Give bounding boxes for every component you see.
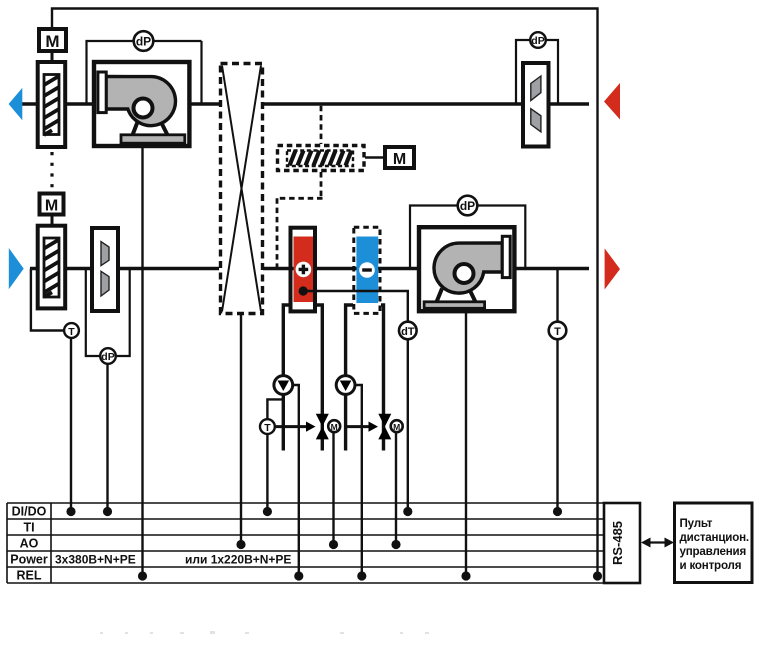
svg-text:или 1х220В+N+РЕ: или 1х220В+N+РЕ xyxy=(185,553,291,567)
svg-text:dP: dP xyxy=(101,351,114,363)
heater box HE1 outer xyxy=(291,228,316,312)
svg-text:REL: REL xyxy=(17,569,42,583)
sensor dP supply fan xyxy=(458,196,478,216)
RS-485 interface box xyxy=(604,503,640,583)
wire pump heater to REL xyxy=(293,385,299,576)
wire arrow into valve 1 xyxy=(275,425,307,428)
wire pump cooler to REL xyxy=(355,385,362,576)
wire supply filter dP bracket xyxy=(86,269,130,357)
junction dot heater return tap xyxy=(299,286,308,295)
svg-text:Power: Power xyxy=(10,553,48,567)
wire frost T bracket to pipe xyxy=(267,399,283,419)
junction dots AO row xyxy=(236,540,400,549)
wire outdoor T sensor tap xyxy=(31,269,64,331)
red arrow supply air (bottom right) xyxy=(605,248,620,289)
wire heater tap to dT sensor xyxy=(303,291,408,322)
cooler box outer dashed xyxy=(354,227,380,313)
supply fan base plate xyxy=(424,302,485,309)
heat exchanger X diagonals xyxy=(222,66,261,312)
wire RS-485 to remote panel double arrow xyxy=(647,541,668,543)
wire supply fan power to REL xyxy=(465,313,467,576)
return filter wedge upper xyxy=(531,76,541,101)
svg-text:RS-485: RS-485 xyxy=(610,521,625,565)
wire exhaust fan dP bracket xyxy=(87,41,202,104)
wire valve 1 M to AO xyxy=(332,432,334,544)
sensor dP return filter xyxy=(530,32,546,48)
blue arrow fresh air in (bottom left) xyxy=(9,248,24,289)
valve V1 three-way xyxy=(316,414,329,427)
wire exhaust fan power to REL xyxy=(141,148,143,576)
svg-text:TI: TI xyxy=(23,521,34,535)
actuator M valve 1 xyxy=(328,420,340,432)
exhaust fan eye xyxy=(134,99,153,118)
sensor dP exhaust fan xyxy=(134,31,154,51)
intake damper blade hatched xyxy=(44,238,59,297)
cooler minus symbol xyxy=(359,262,375,278)
bus row labels xyxy=(10,505,48,583)
svg-text:T: T xyxy=(554,326,561,338)
wire supply T tap xyxy=(556,269,558,322)
svg-text:T: T xyxy=(264,422,271,434)
wire dP supply filter to DI/DO xyxy=(106,364,108,512)
exhaust damper box xyxy=(38,62,65,147)
wire dT to DI/DO xyxy=(407,339,409,511)
svg-text:и контроля: и контроля xyxy=(680,559,742,572)
svg-text:AO: AO xyxy=(20,537,39,551)
wire supply duct segments y=268.5 xyxy=(30,267,589,270)
pipe heater return right xyxy=(316,305,322,451)
supply fan legs xyxy=(437,289,476,303)
remote control panel box xyxy=(675,503,753,583)
exhaust fan legs xyxy=(133,122,168,135)
wire valve 2 M to AO xyxy=(395,432,397,544)
svg-text:дистанцион.: дистанцион. xyxy=(680,531,749,544)
motor M1 box (exhaust damper actuator) xyxy=(39,29,66,51)
exhaust fan box xyxy=(94,62,189,146)
dotted mechanical link xyxy=(50,152,53,188)
pump cooler circle xyxy=(336,376,355,395)
wire supply fan dP bracket xyxy=(410,206,525,269)
svg-text:T: T xyxy=(68,326,75,338)
supply filter wedge upper xyxy=(101,242,109,266)
supply filter wedge lower xyxy=(101,271,109,296)
svg-text:dT: dT xyxy=(401,326,415,338)
wire arrow into valve 2 xyxy=(346,425,369,428)
svg-text:M: M xyxy=(393,151,406,168)
return filter box (top right) xyxy=(523,63,549,147)
svg-text:dP: dP xyxy=(531,35,544,47)
supply filter box xyxy=(92,228,118,311)
cooler coil blue strip xyxy=(356,237,378,304)
pump heater circle xyxy=(274,376,293,395)
motor M3 box (recirculation damper actuator) xyxy=(385,147,414,168)
wire exhaust duct segments y=104 xyxy=(22,102,589,105)
wire M1 to controller frame (top + right side) xyxy=(52,9,598,577)
exhaust fan volute xyxy=(106,77,175,126)
svg-text:Пульт: Пульт xyxy=(680,517,713,530)
exhaust fan flange xyxy=(98,72,106,113)
svg-text:M: M xyxy=(45,32,59,51)
sensor T frost protection xyxy=(260,419,275,434)
intake damper box xyxy=(38,226,65,309)
wire M2 to damper blade xyxy=(51,215,54,240)
blue arrow exhaust out (top left) xyxy=(9,88,23,120)
return filter wedge lower xyxy=(531,109,541,132)
svg-text:M: M xyxy=(45,198,58,215)
supply fan volute xyxy=(434,243,502,293)
wire heat exchanger to AO xyxy=(240,315,242,545)
supply fan box xyxy=(419,227,514,311)
svg-text:dP: dP xyxy=(136,35,151,49)
heater plus symbol xyxy=(296,262,312,278)
supply fan eye xyxy=(455,264,474,283)
valve V2 three-way xyxy=(378,414,391,427)
terminal bus table xyxy=(7,503,604,583)
faint scan artifacts bottom xyxy=(100,631,429,634)
wire frost T to DI/DO xyxy=(266,434,268,512)
svg-text:3x380В+N+PЕ: 3x380В+N+PЕ xyxy=(55,553,136,567)
pipe cooler supply left xyxy=(346,305,353,451)
wire M1 to damper blade xyxy=(51,51,54,75)
sensor T outdoor xyxy=(64,323,79,338)
junction dots DI/DO row xyxy=(66,507,562,516)
recirculation damper hatched blade xyxy=(287,151,353,167)
pipe heater supply left xyxy=(283,305,290,451)
exhaust damper blade hatched xyxy=(44,75,59,135)
svg-text:M: M xyxy=(393,422,400,432)
wire T outdoor to DI/DO xyxy=(70,338,72,512)
svg-text:dP: dP xyxy=(460,199,475,213)
sensor T supply air xyxy=(549,322,567,340)
wire recirc damper to M3 xyxy=(365,156,385,159)
junction dots REL row xyxy=(138,571,602,580)
svg-text:DI/DO: DI/DO xyxy=(12,505,47,519)
sensor dP supply filter xyxy=(100,348,116,364)
actuator M valve 2 xyxy=(391,420,403,432)
wire return filter dP bracket xyxy=(516,40,558,104)
exhaust fan base plate xyxy=(121,135,185,143)
sensor dT xyxy=(399,322,417,340)
red arrow return air (top right) xyxy=(604,83,620,120)
svg-text:управления: управления xyxy=(680,545,747,558)
heater hot water coil red strip xyxy=(294,237,314,303)
svg-text:M: M xyxy=(331,422,338,432)
pipe cooler return right xyxy=(381,305,384,451)
wire recirculation dashed path xyxy=(277,106,323,267)
motor M2 box (intake damper actuator) xyxy=(40,194,64,215)
wire supply T to DI/DO xyxy=(556,339,558,511)
recirculation damper dashed box xyxy=(278,146,365,171)
heat exchanger rotary dashed box xyxy=(221,64,263,314)
supply fan flange xyxy=(502,236,510,277)
